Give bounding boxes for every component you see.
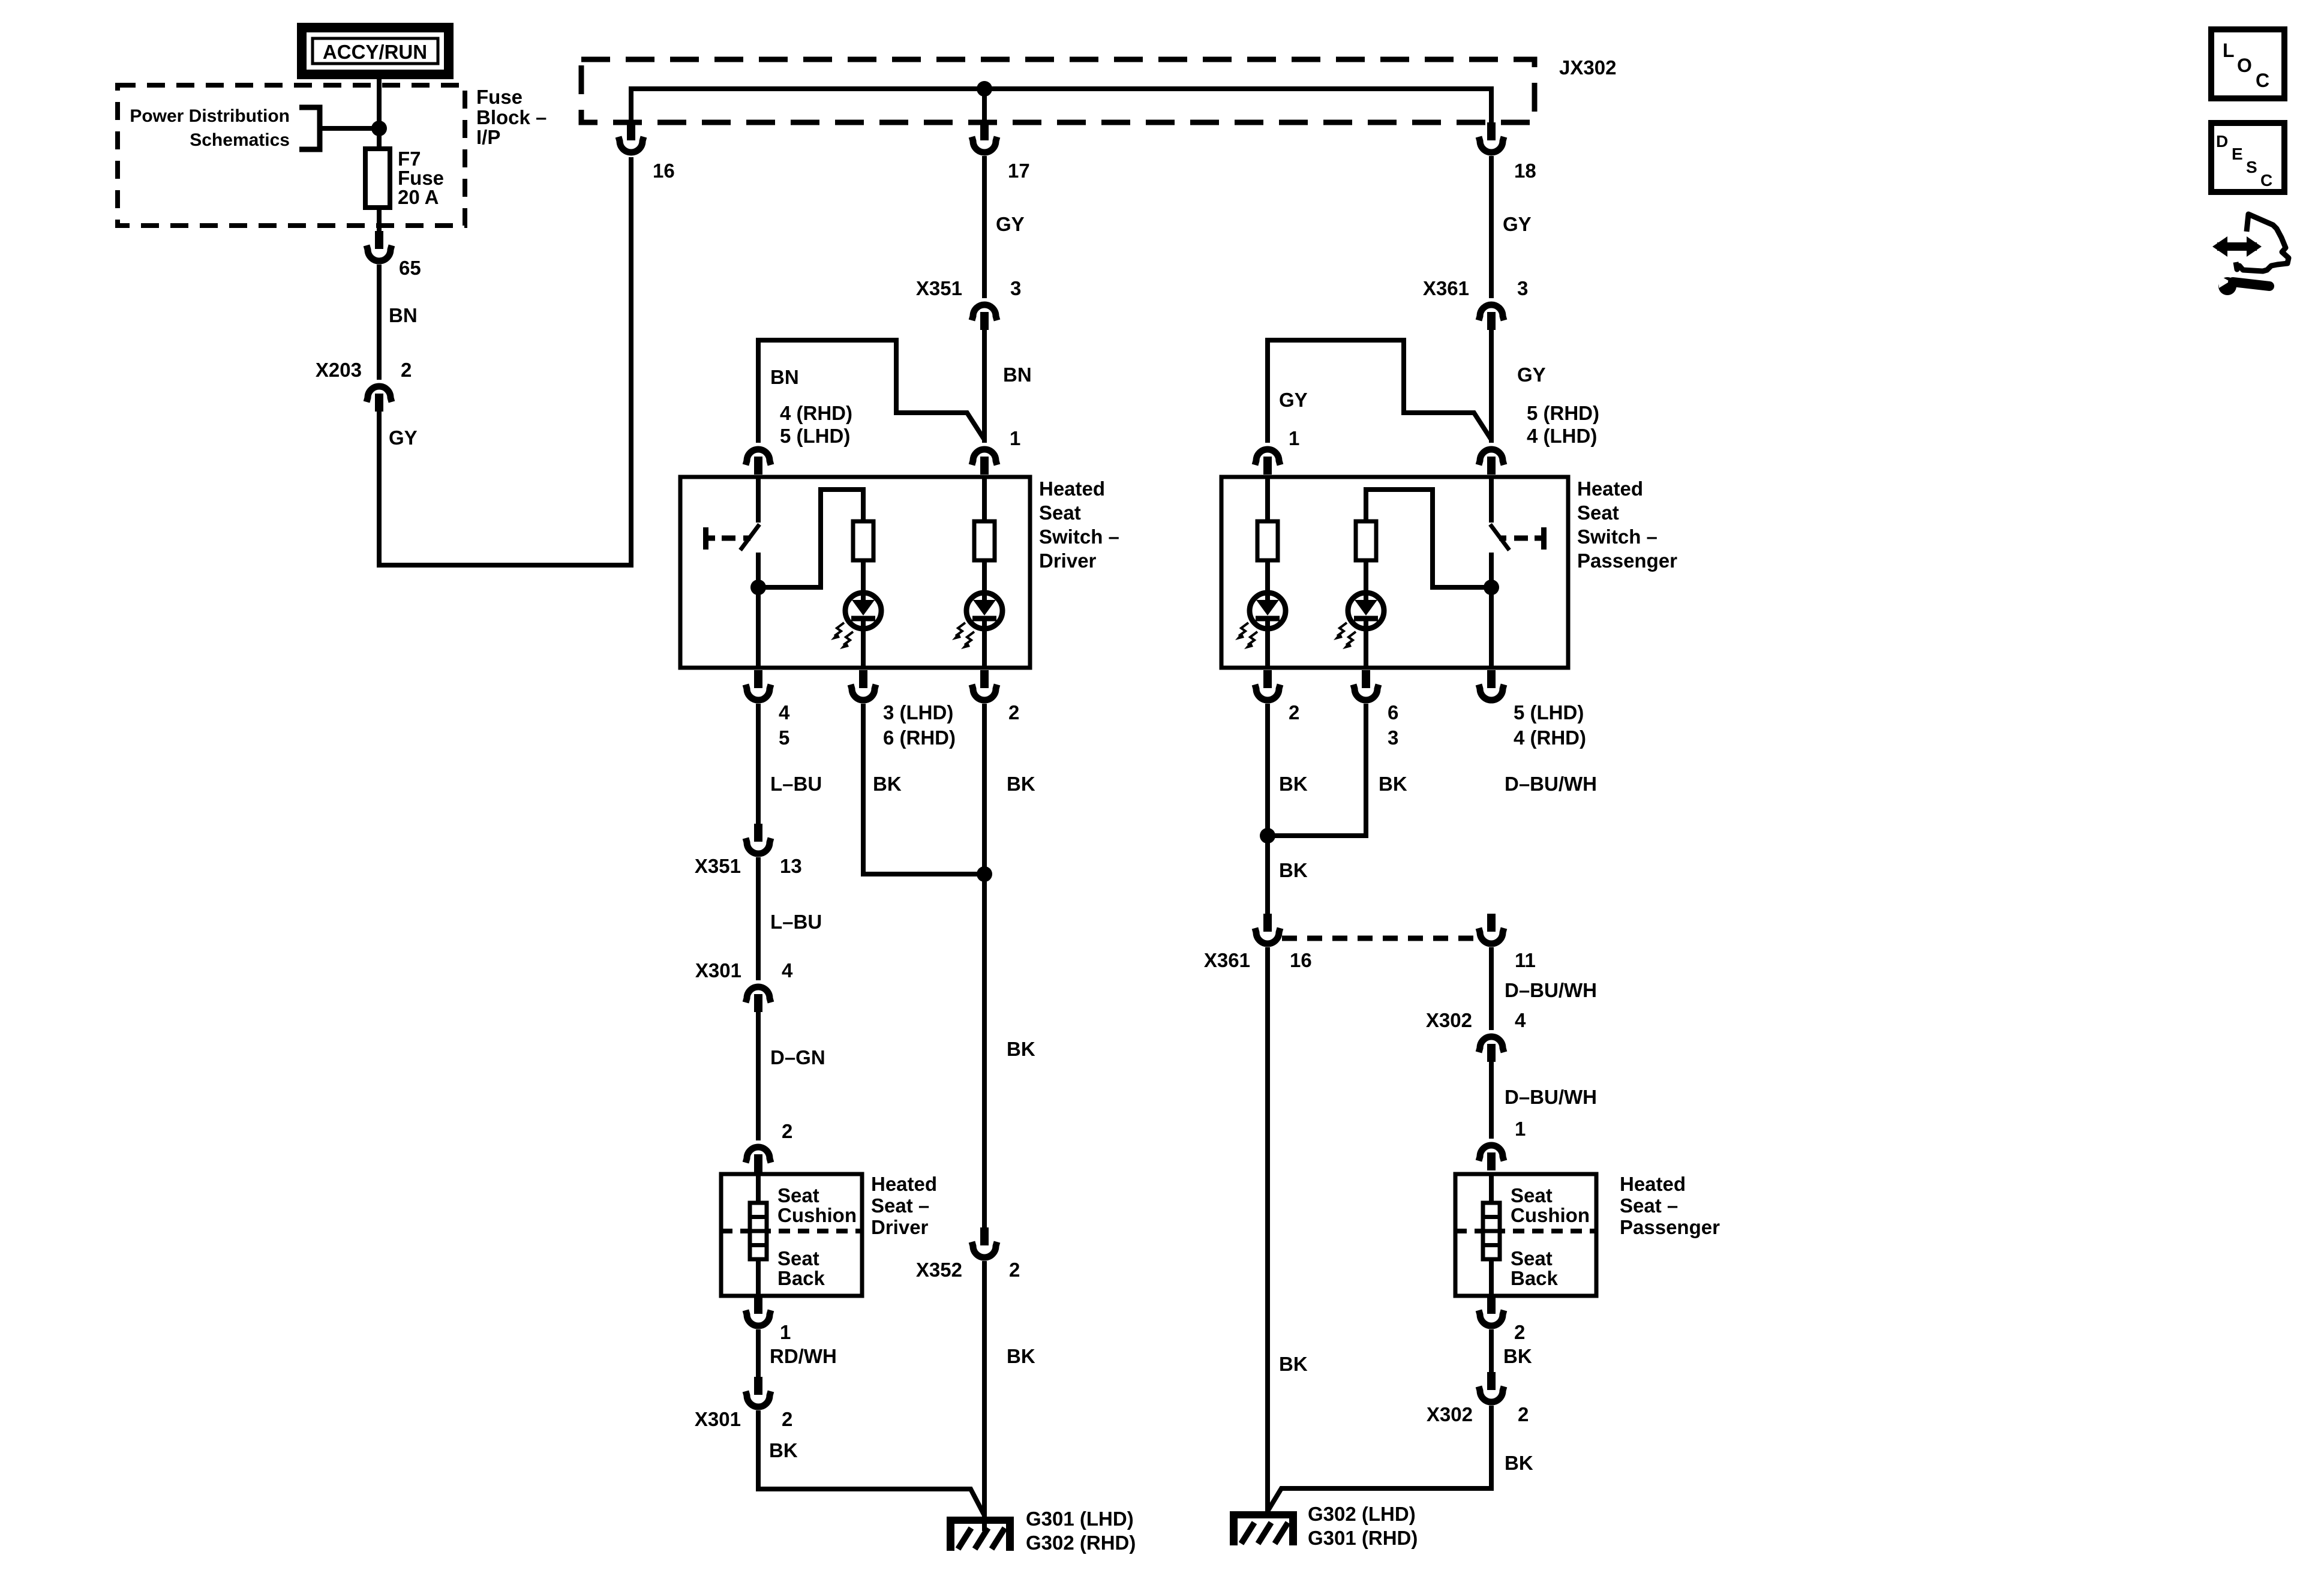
wire BK X361-16 to G302 — [1265, 947, 1270, 1511]
svg-text:L: L — [2223, 40, 2235, 61]
wire into cushion element — [756, 1174, 761, 1203]
svg-text:L–BU: L–BU — [770, 911, 822, 933]
svg-text:6 (RHD): 6 (RHD) — [883, 727, 956, 749]
svg-text:Seat: Seat — [777, 1247, 819, 1269]
wire BN fuse block to X203 — [377, 265, 382, 380]
svg-text:11: 11 — [1515, 949, 1536, 971]
svg-text:X361: X361 — [1423, 277, 1469, 299]
svg-text:2: 2 — [1518, 1403, 1529, 1425]
heated seat switch - passenger box — [1221, 477, 1568, 668]
wire BK seat to X302-2 — [1489, 1329, 1494, 1372]
svg-text:X352: X352 — [916, 1259, 962, 1281]
wire BK driver seat to ground — [758, 1410, 984, 1515]
connector passenger switch pin 1 — [1255, 449, 1280, 465]
wire BK pin 3/6 to junction — [863, 704, 984, 874]
svg-text:GY: GY — [1517, 364, 1546, 386]
svg-text:65: 65 — [399, 257, 421, 279]
wire out of back element passenger — [1489, 1259, 1494, 1296]
ground G302 — [1230, 1511, 1297, 1518]
fuse F7 20 A — [365, 149, 390, 208]
svg-text:C: C — [2256, 70, 2269, 91]
svg-text:X361: X361 — [1204, 949, 1250, 971]
svg-text:D–BU/WH: D–BU/WH — [1505, 1086, 1597, 1108]
svg-text:Switch –: Switch – — [1577, 526, 1658, 548]
svg-text:BN: BN — [770, 366, 799, 388]
switch blade passenger — [1490, 524, 1509, 550]
connector X361 pin 3 — [1479, 305, 1504, 320]
svg-text:D–BU/WH: D–BU/WH — [1505, 979, 1597, 1001]
LED driver illumination — [966, 593, 1002, 629]
connector driver switch pin 3/6 — [859, 670, 867, 688]
svg-text:1: 1 — [1289, 427, 1299, 449]
svg-text:GY: GY — [389, 427, 418, 449]
connector driver switch pin 1 — [972, 449, 997, 465]
svg-text:BK: BK — [1279, 773, 1308, 795]
svg-text:2: 2 — [1289, 701, 1299, 724]
LED passenger illumination — [1250, 593, 1286, 629]
svg-text:Back: Back — [777, 1267, 825, 1289]
svg-text:4: 4 — [782, 959, 793, 981]
wire GY switch pin 1 loop passenger — [1268, 340, 1491, 443]
svg-text:D–GN: D–GN — [770, 1046, 825, 1068]
svg-text:Block –: Block – — [476, 106, 547, 128]
connector driver seat pin 1 — [754, 1296, 762, 1314]
wire resistor to LED to pin 3/6 — [861, 560, 866, 668]
svg-text:4: 4 — [1515, 1009, 1526, 1031]
svg-text:Heated: Heated — [1039, 478, 1105, 500]
connector passenger seat pin 1 — [1479, 1145, 1504, 1161]
connector JX302 pin 16 — [627, 122, 635, 140]
svg-text:2: 2 — [401, 359, 412, 381]
svg-text:X301: X301 — [695, 959, 741, 981]
svg-text:3 (LHD): 3 (LHD) — [883, 701, 953, 724]
svg-text:JX302: JX302 — [1559, 56, 1616, 79]
light arrows driver indicator — [834, 623, 844, 636]
wire resistor to LED to pin 6/3 — [1364, 560, 1368, 668]
wire BK passenger pin 2 down — [1265, 704, 1270, 914]
junction dot inside driver switch — [750, 580, 766, 595]
wire L-BU to X351-13 — [756, 704, 761, 824]
resistor passenger indicator — [1356, 521, 1376, 560]
svg-text:E: E — [2232, 145, 2243, 163]
svg-text:4: 4 — [779, 701, 790, 724]
svg-text:BN: BN — [1003, 364, 1032, 386]
junction dot JX302 bus — [977, 81, 992, 97]
divider seat passenger — [1455, 1229, 1596, 1233]
light arrows driver illumination — [956, 623, 965, 636]
svg-text:Seat –: Seat – — [871, 1194, 929, 1217]
svg-text:G301 (LHD): G301 (LHD) — [1026, 1508, 1134, 1530]
svg-text:BK: BK — [1503, 1345, 1532, 1367]
connector X301 pin 2 — [754, 1377, 762, 1395]
svg-text:X203: X203 — [316, 359, 362, 381]
DESC icon box — [2211, 123, 2284, 192]
svg-text:X301: X301 — [695, 1408, 741, 1430]
wire out of back element — [756, 1259, 761, 1296]
connector passenger switch pin 5/4 bottom — [1487, 670, 1496, 688]
wire GY X361-3 to switch pin 5/4 — [1489, 330, 1494, 443]
svg-text:BN: BN — [389, 304, 418, 326]
wire JX302 drop 17 — [982, 89, 987, 122]
power source box ACCY/RUN — [302, 28, 449, 74]
switch blade driver — [740, 524, 759, 550]
connector X302 pin 2 — [1487, 1372, 1496, 1390]
svg-text:2: 2 — [1009, 1259, 1020, 1281]
connector driver seat pin 2 — [746, 1147, 771, 1163]
wire BK X302-2 to ground — [1268, 1406, 1491, 1511]
svg-text:16: 16 — [653, 160, 675, 182]
heated seat switch - driver box — [680, 477, 1030, 668]
wire ACCY/RUN to fuse F7 — [377, 74, 382, 149]
connector driver switch pin 4/5 bottom — [754, 670, 762, 688]
dashed connector line X361 — [1282, 936, 1477, 941]
wrench icon — [2218, 277, 2236, 295]
connector driver switch pin 4/5 — [746, 449, 771, 465]
connector passenger seat pin 2 — [1487, 1296, 1496, 1314]
svg-text:X351: X351 — [695, 855, 741, 877]
connector passenger switch pin 2 bottom — [1263, 670, 1272, 688]
wire to indicator resistor — [758, 490, 863, 587]
resistor driver illumination — [974, 521, 995, 560]
connector JX302 pin 17 — [980, 122, 989, 140]
svg-text:O: O — [2237, 55, 2252, 76]
svg-text:Power Distribution: Power Distribution — [130, 106, 290, 126]
wire D-GN X301-4 to seat pin 2 — [756, 1012, 761, 1140]
wire L-BU X351-13 to X301-4 — [756, 857, 761, 980]
svg-text:2: 2 — [1008, 701, 1019, 724]
wire BN switch pin 4/5 loop — [758, 340, 984, 443]
svg-text:1: 1 — [1515, 1118, 1526, 1140]
svg-text:Passenger: Passenger — [1620, 1216, 1720, 1238]
svg-text:Fuse: Fuse — [476, 86, 523, 108]
connector X361 pin 16 — [1263, 914, 1272, 932]
svg-text:GY: GY — [1279, 389, 1308, 411]
wire D-BU/WH X302-4 to seat pin 1 — [1489, 1062, 1494, 1139]
junction dot on feed — [371, 121, 387, 136]
svg-text:G301 (RHD): G301 (RHD) — [1308, 1527, 1418, 1549]
wire switch upper contact — [756, 477, 761, 523]
connector X301 pin 4 — [746, 987, 771, 1002]
svg-text:Schematics: Schematics — [190, 130, 290, 150]
svg-text:G302 (LHD): G302 (LHD) — [1308, 1503, 1416, 1525]
wire D-BU/WH X361-11 to X302-4 — [1489, 947, 1494, 1030]
svg-text:13: 13 — [780, 855, 802, 877]
svg-text:5: 5 — [779, 727, 789, 749]
svg-text:BK: BK — [1007, 773, 1035, 795]
svg-text:2: 2 — [782, 1120, 792, 1142]
heater element driver seat — [750, 1203, 767, 1259]
wire JX302 internal bus — [631, 89, 1491, 122]
heated seat - driver box — [721, 1174, 862, 1296]
wire RD/WH seat to X301-2 — [756, 1329, 761, 1377]
connector passenger switch pin 5/4 — [1479, 449, 1504, 465]
wire resistor to LED to pin 2 — [1265, 560, 1270, 668]
svg-text:Seat: Seat — [1511, 1184, 1553, 1206]
svg-text:BK: BK — [1279, 1353, 1308, 1375]
svg-text:X302: X302 — [1427, 1403, 1473, 1425]
connector driver switch pin 2 — [980, 670, 989, 688]
connector X302 pin 4 — [1479, 1037, 1504, 1052]
svg-text:1: 1 — [780, 1321, 791, 1343]
svg-text:2: 2 — [782, 1408, 792, 1430]
junction dot passenger BK — [1260, 828, 1275, 843]
svg-text:Cushion: Cushion — [1511, 1204, 1590, 1226]
svg-text:X302: X302 — [1426, 1009, 1472, 1031]
svg-text:5 (LHD): 5 (LHD) — [1514, 701, 1584, 724]
svg-text:G302 (RHD): G302 (RHD) — [1026, 1532, 1136, 1554]
svg-text:Seat: Seat — [1039, 502, 1081, 524]
switch linkage dashes driver — [703, 527, 708, 550]
switch linkage dashes passenger — [1541, 527, 1547, 550]
svg-text:16: 16 — [1290, 949, 1312, 971]
svg-text:Back: Back — [1511, 1267, 1559, 1289]
wire switch upper contact passenger — [1489, 477, 1494, 523]
svg-text:RD/WH: RD/WH — [770, 1345, 837, 1367]
connector X351 pin 3 — [972, 305, 997, 320]
wire bracket tap — [320, 126, 379, 131]
svg-text:Driver: Driver — [1039, 550, 1097, 572]
wire passenger pin 1 to resistor — [1265, 477, 1270, 521]
resistor driver indicator — [853, 521, 873, 560]
svg-text:D–BU/WH: D–BU/WH — [1505, 773, 1597, 795]
svg-text:Seat: Seat — [777, 1184, 819, 1206]
wire GY JX302-17 to X351-3 — [982, 156, 987, 298]
svg-text:BK: BK — [1279, 859, 1308, 881]
wire into cushion element passenger — [1489, 1174, 1494, 1203]
light arrows passenger illumination — [1239, 623, 1248, 636]
vehicle outline icon — [2236, 214, 2289, 271]
fuse block - I/P dashed box — [118, 85, 465, 226]
svg-text:Heated: Heated — [1620, 1173, 1686, 1195]
svg-text:20 A: 20 A — [398, 186, 439, 208]
svg-text:17: 17 — [1008, 160, 1030, 182]
svg-text:BK: BK — [873, 773, 902, 795]
heated seat - passenger box — [1455, 1174, 1596, 1296]
LED passenger indicator — [1348, 593, 1384, 629]
svg-text:Heated: Heated — [871, 1173, 937, 1195]
connector X361 pin 11 — [1487, 914, 1496, 932]
svg-text:BK: BK — [769, 1439, 798, 1461]
svg-text:Switch –: Switch – — [1039, 526, 1119, 548]
svg-text:BK: BK — [1379, 773, 1407, 795]
wire BK switch pin 2 to X352 — [982, 704, 987, 1227]
svg-text:D: D — [2216, 132, 2228, 151]
svg-text:BK: BK — [1007, 1038, 1035, 1060]
connector X352 pin 2 — [980, 1227, 989, 1245]
wire BN X351-3 to switch pin 1 — [982, 330, 987, 443]
svg-text:ACCY/RUN: ACCY/RUN — [323, 41, 427, 63]
svg-text:18: 18 — [1514, 160, 1536, 182]
junction block JX302 dashed box — [581, 59, 1535, 122]
svg-text:6: 6 — [1388, 701, 1398, 724]
wire GY JX302-18 to X361-3 — [1489, 156, 1494, 298]
divider seat driver — [721, 1229, 862, 1233]
svg-text:5 (RHD): 5 (RHD) — [1527, 402, 1599, 424]
direction double arrow icon — [2217, 242, 2257, 251]
wire BK pin 6/3 to junction — [1268, 704, 1366, 836]
junction dot driver BK — [977, 866, 992, 882]
svg-text:Seat: Seat — [1577, 502, 1619, 524]
svg-text:Cushion: Cushion — [777, 1204, 857, 1226]
wire BK X352 to G301 — [982, 1261, 987, 1531]
ground G301 — [947, 1517, 1014, 1524]
resistor passenger illumination — [1257, 521, 1278, 560]
svg-text:GY: GY — [1503, 213, 1532, 235]
svg-text:GY: GY — [996, 213, 1025, 235]
wire pin 1 to pin 2 through lamp — [982, 477, 987, 668]
svg-text:BK: BK — [1007, 1345, 1035, 1367]
light arrows passenger indicator — [1337, 623, 1347, 636]
heater element passenger seat — [1483, 1203, 1500, 1259]
svg-text:2: 2 — [1514, 1321, 1525, 1343]
svg-text:BK: BK — [1505, 1452, 1533, 1474]
connector JX302 pin 18 — [1487, 122, 1496, 140]
svg-text:1: 1 — [1010, 427, 1020, 449]
svg-text:4 (RHD): 4 (RHD) — [1514, 727, 1586, 749]
wire GY X203 to JX302 pin 16 — [379, 157, 631, 565]
svg-text:4 (RHD): 4 (RHD) — [780, 402, 852, 424]
wire indicator resistor to switch junction — [1366, 490, 1491, 587]
svg-text:4 (LHD): 4 (LHD) — [1527, 425, 1597, 447]
wire switch lower contact passenger — [1489, 553, 1494, 668]
junction dot inside passenger switch — [1484, 580, 1499, 595]
connector passenger switch pin 6/3 — [1362, 670, 1370, 688]
svg-text:3: 3 — [1010, 277, 1021, 299]
svg-text:S: S — [2246, 158, 2257, 176]
svg-text:3: 3 — [1517, 277, 1528, 299]
svg-text:I/P: I/P — [476, 126, 500, 148]
svg-text:Seat: Seat — [1511, 1247, 1553, 1269]
wire fuse F7 to connector 65 — [377, 208, 382, 231]
connector terminal 65 — [375, 231, 383, 249]
LOC icon box — [2211, 29, 2284, 98]
bracket to Power Distribution Schematics — [299, 107, 320, 149]
LED driver indicator — [845, 593, 881, 629]
svg-text:Passenger: Passenger — [1577, 550, 1677, 572]
wire switch lower contact to pin 4 — [756, 553, 761, 668]
svg-text:3: 3 — [1388, 727, 1398, 749]
connector X203 pin 2 — [367, 386, 392, 402]
svg-text:Seat –: Seat – — [1620, 1194, 1678, 1217]
connector X351 pin 13 — [754, 824, 762, 842]
svg-text:C: C — [2260, 171, 2272, 190]
svg-text:L–BU: L–BU — [770, 773, 822, 795]
svg-text:X351: X351 — [916, 277, 962, 299]
svg-text:Driver: Driver — [871, 1216, 929, 1238]
svg-text:5 (LHD): 5 (LHD) — [780, 425, 850, 447]
svg-text:Heated: Heated — [1577, 478, 1643, 500]
